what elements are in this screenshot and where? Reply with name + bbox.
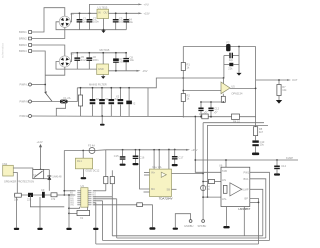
capacitor C16 gnd stack [133, 149, 145, 165]
capacitor C4 [123, 12, 133, 29]
wire U3 out right R13 [93, 150, 108, 191]
SEC4 [64, 40, 298, 175]
relay K1 [33, 169, 50, 179]
svg-text:TDA7294V: TDA7294V [159, 197, 173, 201]
wire B1 plus to +rail [70, 13, 97, 21]
input RC network line [201, 101, 224, 103]
junction inv node [223, 77, 225, 79]
svg-text:BRIN2: BRIN2 [19, 37, 27, 41]
feedback cap CF [224, 53, 239, 63]
svg-text:PWR-N: PWR-N [20, 100, 29, 104]
regulator U1 7815 [97, 6, 109, 33]
right stack resistor R8 [254, 118, 264, 136]
resistor R10 [14, 193, 21, 201]
wire BRIN4 down-bus [32, 51, 46, 93]
resistor R12 [51, 193, 57, 201]
svg-text:C9: C9 [41, 188, 45, 192]
svg-text:BRIN4: BRIN4 [19, 49, 27, 53]
svg-text:OUT: OUT [292, 78, 298, 82]
regulator U2 7915 [97, 48, 110, 79]
capacitor CX5 [126, 87, 136, 116]
capacitor C15 gnd stack [114, 149, 126, 166]
svg-text:PWR-E: PWR-E [20, 114, 29, 118]
wire opamp out [230, 87, 256, 89]
svg-text:LIN: LIN [222, 178, 226, 182]
terminal arrow +15V [138, 12, 150, 16]
wire noninv input [183, 90, 221, 92]
resistor R2 [181, 94, 190, 102]
wire box top feed [194, 116, 221, 173]
svg-text:B1: B1 [71, 12, 75, 16]
connector BRIN1 [19, 30, 32, 34]
diode D1 [44, 170, 62, 191]
resistor R1 [181, 63, 190, 71]
svg-text:SPKBU: SPKBU [198, 224, 207, 228]
capacitor C2 [87, 12, 100, 29]
wire U4 out [172, 173, 205, 190]
wire U3 left rows [64, 190, 75, 192]
svg-text:schematics: schematics [1, 42, 5, 58]
wire U4 left pins [139, 149, 150, 192]
connector BRIN3 [19, 43, 32, 47]
wire out to right arrow [256, 79, 287, 81]
switch S1 [44, 91, 52, 101]
svg-text:10u: 10u [129, 20, 134, 24]
svg-text:X2: X2 [116, 95, 120, 99]
fuse F4 circle [201, 184, 211, 191]
svg-text:+35V: +35V [191, 148, 197, 152]
ground row mid [37, 197, 42, 230]
svg-text:-15V: -15V [142, 69, 148, 73]
svg-text:OUT: OUT [104, 11, 110, 15]
feedback rails [224, 46, 240, 78]
bank right edge [147, 88, 149, 116]
svg-text:100n: 100n [93, 19, 99, 23]
hatch marks [204, 111, 217, 114]
wire PWR3 bottom rail [32, 115, 184, 118]
ground row left [14, 197, 19, 230]
svg-text:X1: X1 [80, 216, 84, 220]
wire U3 gnd long [93, 205, 152, 228]
capacitor C1 [77, 12, 89, 29]
svg-text:C15: C15 [114, 154, 119, 158]
capacitor C6 [86, 52, 99, 69]
SEC5 [2, 123, 269, 244]
resistor R11 [27, 193, 33, 202]
ground feedback [236, 65, 241, 76]
IC U6 box [219, 164, 251, 211]
svg-text:C16: C16 [140, 155, 145, 159]
svg-text:4A: 4A [207, 187, 210, 191]
feedback resistor RF [224, 63, 239, 71]
fuse/lamp F1 [56, 88, 77, 116]
capacitor CX4 [116, 87, 123, 116]
svg-text:10u: 10u [260, 143, 265, 147]
wire speaker line lower [202, 191, 204, 220]
capacitor C3 [113, 12, 126, 29]
svg-text:X2: X2 [105, 97, 109, 101]
wire KLM to box top [225, 159, 227, 167]
svg-text:C17: C17 [179, 156, 184, 160]
wire B2 bottom to mains bus [45, 67, 65, 75]
svg-text:GND: GND [98, 67, 104, 71]
wire +15 rail out [109, 12, 139, 14]
terminal arrow +35V [186, 148, 198, 152]
speaker terminal SPK [198, 220, 207, 228]
wire U6 bottom gnd [223, 207, 229, 229]
svg-text:PWR-L: PWR-L [20, 83, 29, 87]
svg-text:2m2: 2m2 [81, 58, 87, 62]
loop bottom with resistor R3 [183, 114, 255, 123]
capacitor C7 [113, 52, 126, 72]
svg-text:KLMP: KLMP [286, 156, 293, 160]
capacitor CX2 [99, 87, 109, 116]
junction IC top feeds [153, 149, 170, 170]
svg-text:+VU: +VU [144, 3, 149, 7]
capacitor C18 [41, 188, 45, 198]
svg-text:RL1: RL1 [77, 159, 82, 163]
bridge rectifier B2 [59, 52, 74, 67]
bus verticals left [93, 197, 117, 241]
svg-text:10u: 10u [130, 58, 135, 62]
wire PWR2 to fuse [32, 101, 61, 103]
svg-text:LIN-: LIN- [222, 197, 227, 201]
svg-text:K1: K1 [33, 173, 37, 177]
wire lin pin [202, 179, 221, 183]
relay coil RL yellow [75, 150, 100, 180]
connector BRIN2 [19, 37, 32, 41]
wire -15 out line [109, 70, 137, 72]
capacitor C17 gnd stack [172, 149, 184, 167]
bottom bus lines [96, 236, 270, 244]
wire BRIN2 to bridge B1 bottom [32, 27, 65, 38]
right stack capacitor C13 [252, 136, 265, 153]
supply line to amp [106, 149, 186, 151]
wire U6 right pins to bus [250, 172, 270, 244]
junction loop left [182, 77, 184, 79]
connector BRIN4 [19, 49, 32, 53]
svg-text:GNDBU: GNDBU [184, 224, 193, 228]
wire bank to opamp loop [148, 78, 224, 88]
svg-text:X2: X2 [96, 97, 100, 101]
svg-text:22k: 22k [27, 198, 32, 202]
svg-text:4k7: 4k7 [259, 130, 264, 134]
svg-text:MU: MU [151, 187, 155, 191]
IC U4 TDA7294 [150, 165, 173, 201]
ground amp left [149, 227, 155, 229]
bank top rail [77, 87, 148, 89]
resistor R5 [221, 94, 225, 103]
terminal arrow -15V [137, 69, 148, 73]
svg-text:Y2: Y2 [132, 101, 136, 105]
svg-text:TAB: TAB [222, 169, 227, 173]
wire B1 minus to ground rail [56, 22, 126, 30]
capacitor C14 to ground [274, 159, 287, 175]
connector PWR1 [20, 83, 32, 87]
SEC3 [20, 77, 224, 126]
svg-text:MC7915: MC7915 [100, 48, 110, 52]
capacitor C5 [74, 52, 86, 69]
ground R6 [276, 100, 282, 104]
svg-text:BP: BP [245, 197, 249, 201]
wire U6 bottom 2 [243, 207, 245, 236]
ground stem U3 [66, 194, 71, 230]
capacitor CX3 [109, 87, 119, 116]
loop left branch with resistors [182, 47, 184, 118]
bridge rectifier B1 [59, 12, 74, 27]
wire inv input [221, 78, 224, 85]
svg-text:MAINS FILTER: MAINS FILTER [89, 82, 107, 86]
svg-text:F3 4A: F3 4A [88, 143, 95, 147]
ground right stack [252, 153, 259, 156]
svg-text:OPA2134: OPA2134 [231, 91, 243, 95]
loop right branch [255, 47, 257, 118]
capacitor CN2 [208, 101, 219, 118]
long bus y125 [208, 125, 269, 197]
wire BRIN1 to bridge B1 top [32, 8, 65, 32]
svg-text:F1 2A: F1 2A [64, 96, 71, 100]
junction U3 [63, 190, 65, 192]
svg-text:KLMP: KLMP [242, 187, 249, 191]
supply arrow +12V [37, 140, 43, 169]
speaker line [202, 123, 204, 186]
svg-text:G5LE DC12: G5LE DC12 [85, 169, 100, 173]
svg-text:22k: 22k [228, 66, 233, 70]
speaker terminal GND [173, 214, 194, 230]
junction PWR1 bus [44, 84, 46, 86]
svg-text:BRIN1: BRIN1 [19, 30, 27, 34]
resistor R14 [93, 170, 114, 197]
op-amp U5 [221, 82, 243, 95]
svg-text:IN+: IN+ [151, 171, 156, 175]
ground stem right [93, 203, 98, 244]
svg-text:+15V: +15V [144, 12, 150, 16]
svg-text:BU1: BU1 [244, 177, 250, 181]
fuse F3 [64, 143, 106, 153]
wire BRIN3 to bridge B2 top [32, 45, 65, 56]
svg-text:SPEAKER PROTECTION: SPEAKER PROTECTION [4, 180, 34, 184]
wire B2 plus to -rail [70, 53, 126, 62]
svg-text:BRIN3: BRIN3 [19, 43, 27, 47]
connector PWR3 [20, 114, 32, 118]
wire lin- pin [202, 196, 221, 198]
wire row branch down [30, 195, 64, 207]
terminal arrow out right [287, 78, 298, 82]
IC U3 DIP [70, 184, 97, 207]
ground bank [100, 115, 105, 126]
svg-text:PW1: PW1 [244, 171, 250, 175]
svg-text:10k: 10k [282, 88, 287, 92]
capacitor C8 on output drop [123, 52, 134, 71]
wire B2 minus to gnd rail2 [56, 62, 97, 70]
svg-text:22p: 22p [229, 58, 234, 62]
resistor RV1 [78, 87, 82, 116]
svg-text:+12V: +12V [37, 140, 43, 144]
wire PWR1 [32, 84, 46, 86]
svg-text:B2: B2 [71, 52, 75, 56]
loop top with fuse F2 [183, 40, 255, 51]
SEC2 [1, 42, 148, 78]
wire fuse line drop [63, 151, 65, 196]
resistor R6 [277, 79, 287, 100]
svg-text:C12: C12 [214, 107, 219, 111]
svg-text:C14: C14 [281, 164, 286, 168]
capacitor CX1 [90, 87, 100, 116]
crystal X1 [69, 207, 90, 220]
row wire [14, 194, 75, 196]
capacitor CN1 [198, 101, 203, 118]
resistor R4b [202, 114, 208, 119]
svg-text:SB: SB [167, 188, 171, 192]
SEC1 [19, 3, 150, 93]
svg-text:OSC: OSC [70, 205, 75, 207]
connector PWR2 [20, 100, 32, 104]
terminal arrow +V [138, 3, 148, 7]
svg-text:47k: 47k [51, 197, 56, 201]
wire unregulated +V takeoff [90, 4, 139, 13]
KLM line [195, 159, 298, 161]
connector CN spk [2, 162, 33, 194]
svg-text:1N4148: 1N4148 [52, 175, 62, 179]
svg-text:VS+ VS-: VS+ VS- [152, 165, 162, 169]
svg-text:U1 7815: U1 7815 [98, 6, 108, 10]
long bus y122 [203, 122, 264, 124]
resistor R15 [137, 203, 143, 207]
svg-text:IN: IN [98, 11, 101, 15]
svg-text:100n: 100n [93, 58, 99, 62]
